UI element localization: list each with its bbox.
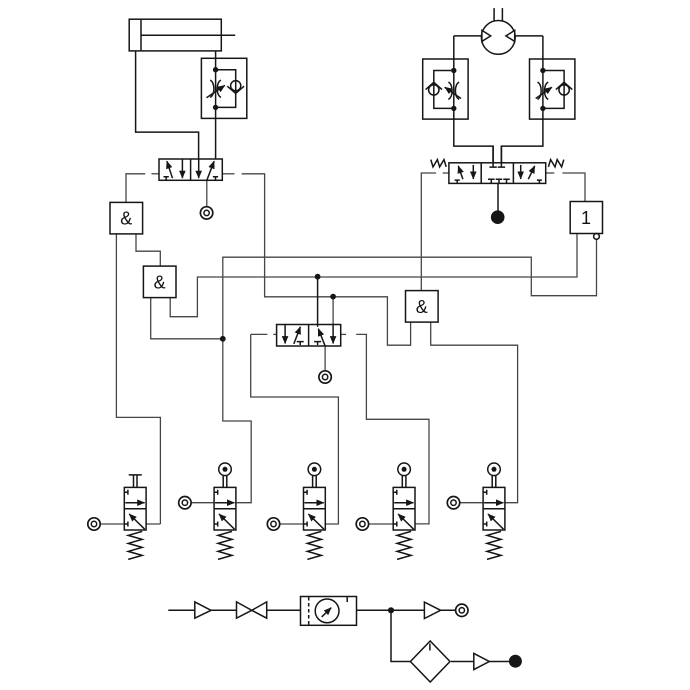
svg-text:1: 1: [581, 208, 591, 228]
